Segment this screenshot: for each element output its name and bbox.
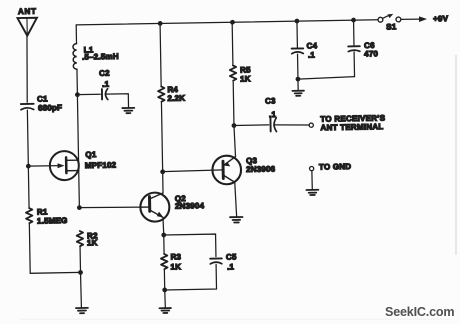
node TO GND terminal [309, 166, 313, 170]
scan artifact bottom streak [20, 319, 450, 320]
svg-text:2N3906: 2N3906 [246, 165, 276, 175]
antenna ANT [17, 18, 37, 36]
svg-text:1.5MEG: 1.5MEG [37, 216, 68, 226]
capacitor C6 [348, 46, 360, 51]
svg-text:2.2K: 2.2K [167, 94, 185, 103]
inductor L1 [73, 44, 77, 70]
node rail R5 junction [230, 20, 235, 25]
wire R5 to C3 node [232, 81, 235, 125]
label R2 1K [87, 231, 98, 247]
wire gate node to Q1 gate [28, 165, 60, 168]
svg-text:R5: R5 [240, 65, 251, 74]
capacitor C4 [292, 48, 304, 53]
wire junction to R3 [163, 235, 165, 254]
svg-text:ANT: ANT [18, 7, 37, 16]
wire C4 node to C6 bottom [298, 77, 355, 79]
wire R2 bottom to ground node [79, 247, 81, 272]
label R1 1.5MEG [37, 207, 68, 226]
svg-text:R3: R3 [170, 252, 181, 261]
svg-text:.1: .1 [269, 110, 277, 119]
wire C2 to ground elbow [105, 94, 128, 108]
wire L1 to Q1 drain line [77, 69, 79, 207]
node C3 junction [232, 123, 237, 128]
label R5 1K [240, 65, 251, 83]
svg-text:1K: 1K [170, 262, 181, 271]
transistor Q3 [212, 155, 242, 217]
wire rail to R5 [231, 22, 234, 65]
wire rail to C4 [296, 21, 298, 48]
ground under Q3 collector [230, 217, 243, 223]
label C3 .1 [265, 96, 277, 119]
node Q1 source junction [77, 205, 82, 210]
svg-text:470: 470 [364, 49, 378, 58]
svg-text:2N3904: 2N3904 [175, 201, 205, 211]
scan artifact right edge [455, 55, 457, 255]
svg-text:.1: .1 [227, 262, 235, 271]
node Q2 emitter junction [161, 233, 166, 238]
switch S1 [378, 14, 401, 22]
wire R3 bottom to ground node [163, 270, 165, 290]
svg-text:C1: C1 [37, 94, 48, 103]
svg-text:680pF: 680pF [38, 103, 62, 112]
label Q2 2N3904 [175, 194, 205, 211]
node Q3 base junction [160, 169, 165, 174]
wire C3 node to Q3 emitter [234, 126, 236, 157]
ground under C2 [122, 108, 134, 113]
svg-text:.1: .1 [102, 80, 110, 89]
wire C4 to bottom node [297, 54, 299, 79]
wire junction to ground [80, 272, 83, 307]
svg-text:MPF102: MPF102 [85, 161, 117, 171]
ground under TO GND [306, 190, 318, 195]
label C6 470 [364, 41, 379, 59]
node rail R4 junction [158, 21, 163, 26]
resistor R5 [230, 65, 237, 80]
label C5 .1 [226, 252, 237, 271]
resistor R4 [158, 86, 165, 101]
capacitor C2 [102, 89, 108, 100]
wire R4 to Q2 collector [161, 102, 163, 192]
svg-text:C3: C3 [265, 96, 276, 105]
svg-text:C4: C4 [307, 41, 318, 50]
svg-text:1K: 1K [87, 238, 98, 247]
wire rail to C6 [353, 20, 355, 46]
svg-text:ANT TERMINAL: ANT TERMINAL [320, 122, 383, 132]
label Q1 MPF102 [85, 150, 117, 170]
svg-text:C2: C2 [99, 69, 110, 78]
svg-text:TO GND: TO GND [319, 162, 351, 172]
resistor R3 [161, 254, 168, 269]
resistor R2 [77, 231, 84, 246]
node output terminal [309, 123, 313, 127]
wire R1 bottom to ground rail elbow [29, 223, 80, 273]
wire top rail [76, 20, 378, 25]
svg-text:R1: R1 [37, 207, 48, 216]
wire gate node to R1 [27, 166, 30, 208]
svg-text:C5: C5 [226, 252, 237, 261]
label TO RECEIVER'S ANT TERMINAL [320, 114, 386, 133]
wire S1 to supply arrow [401, 18, 420, 20]
ground under C4 [292, 91, 304, 96]
wire junction to ground [164, 290, 167, 308]
wire rail to R4 [160, 23, 161, 86]
label C1 680pF [37, 94, 62, 112]
svg-text:.1: .1 [308, 50, 316, 59]
wire C5 branch top [164, 234, 216, 257]
transistor Q2 [140, 192, 170, 235]
svg-text:SeekIC.com: SeekIC.com [385, 305, 454, 319]
wire C2 branch left [77, 93, 100, 95]
node R1/R2 ground junction [78, 270, 83, 275]
arrow to +9V [419, 16, 427, 22]
label L1 .5-2.5mH [82, 45, 119, 62]
capacitor C5 [210, 258, 222, 264]
node C4/C6 junction [296, 77, 301, 82]
wire C1 to gate node [26, 110, 29, 166]
wire terminal to ground [311, 171, 313, 190]
node rail C4 junction [295, 19, 300, 24]
node rail C6 junction [351, 18, 356, 23]
node R3/C5 ground junction [162, 288, 167, 293]
svg-text:+9V: +9V [433, 14, 449, 23]
svg-text:1K: 1K [240, 74, 251, 83]
wire rail corner down to L1 [75, 25, 77, 44]
resistor R1 [26, 208, 33, 223]
ground under R2 line [76, 308, 88, 313]
node C2 junction [75, 92, 80, 97]
wire C3 to output terminal [274, 124, 309, 125]
node gate junction [26, 164, 31, 169]
wire C5 bottom [164, 264, 216, 290]
wire C3 branch [234, 124, 269, 127]
wire Q1 source to Q2 base [79, 207, 140, 209]
transistor Q1 [50, 151, 80, 181]
wire Q3 base [163, 170, 224, 172]
label R3 1K [170, 252, 182, 271]
capacitor C1 [21, 104, 34, 110]
svg-text:.5–2.5mH: .5–2.5mH [82, 52, 119, 62]
wire C4 node to ground [297, 79, 299, 90]
label R4 2.2K [167, 85, 185, 103]
ground under R3 line [159, 308, 171, 313]
label Q3 2N3906 [246, 156, 276, 174]
capacitor C3 [270, 118, 276, 132]
label C2 .1 [99, 69, 110, 89]
wire antenna to C1 [26, 36, 28, 103]
svg-text:Q1: Q1 [85, 150, 97, 159]
label C4 .1 [307, 41, 318, 59]
svg-text:S1: S1 [386, 22, 397, 31]
wire C6 to bottom rail [353, 52, 355, 77]
